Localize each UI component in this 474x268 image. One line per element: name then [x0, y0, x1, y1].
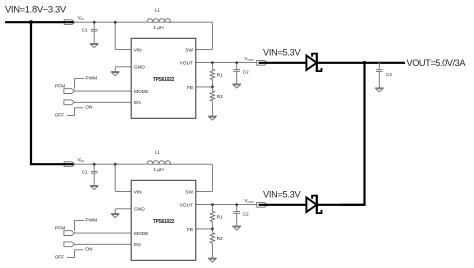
- svg-text:VIN=1.8V~3.3V: VIN=1.8V~3.3V: [5, 4, 67, 15]
- svg-text:C2: C2: [386, 72, 392, 78]
- svg-text:VOUT=5.0V/3A: VOUT=5.0V/3A: [407, 58, 467, 68]
